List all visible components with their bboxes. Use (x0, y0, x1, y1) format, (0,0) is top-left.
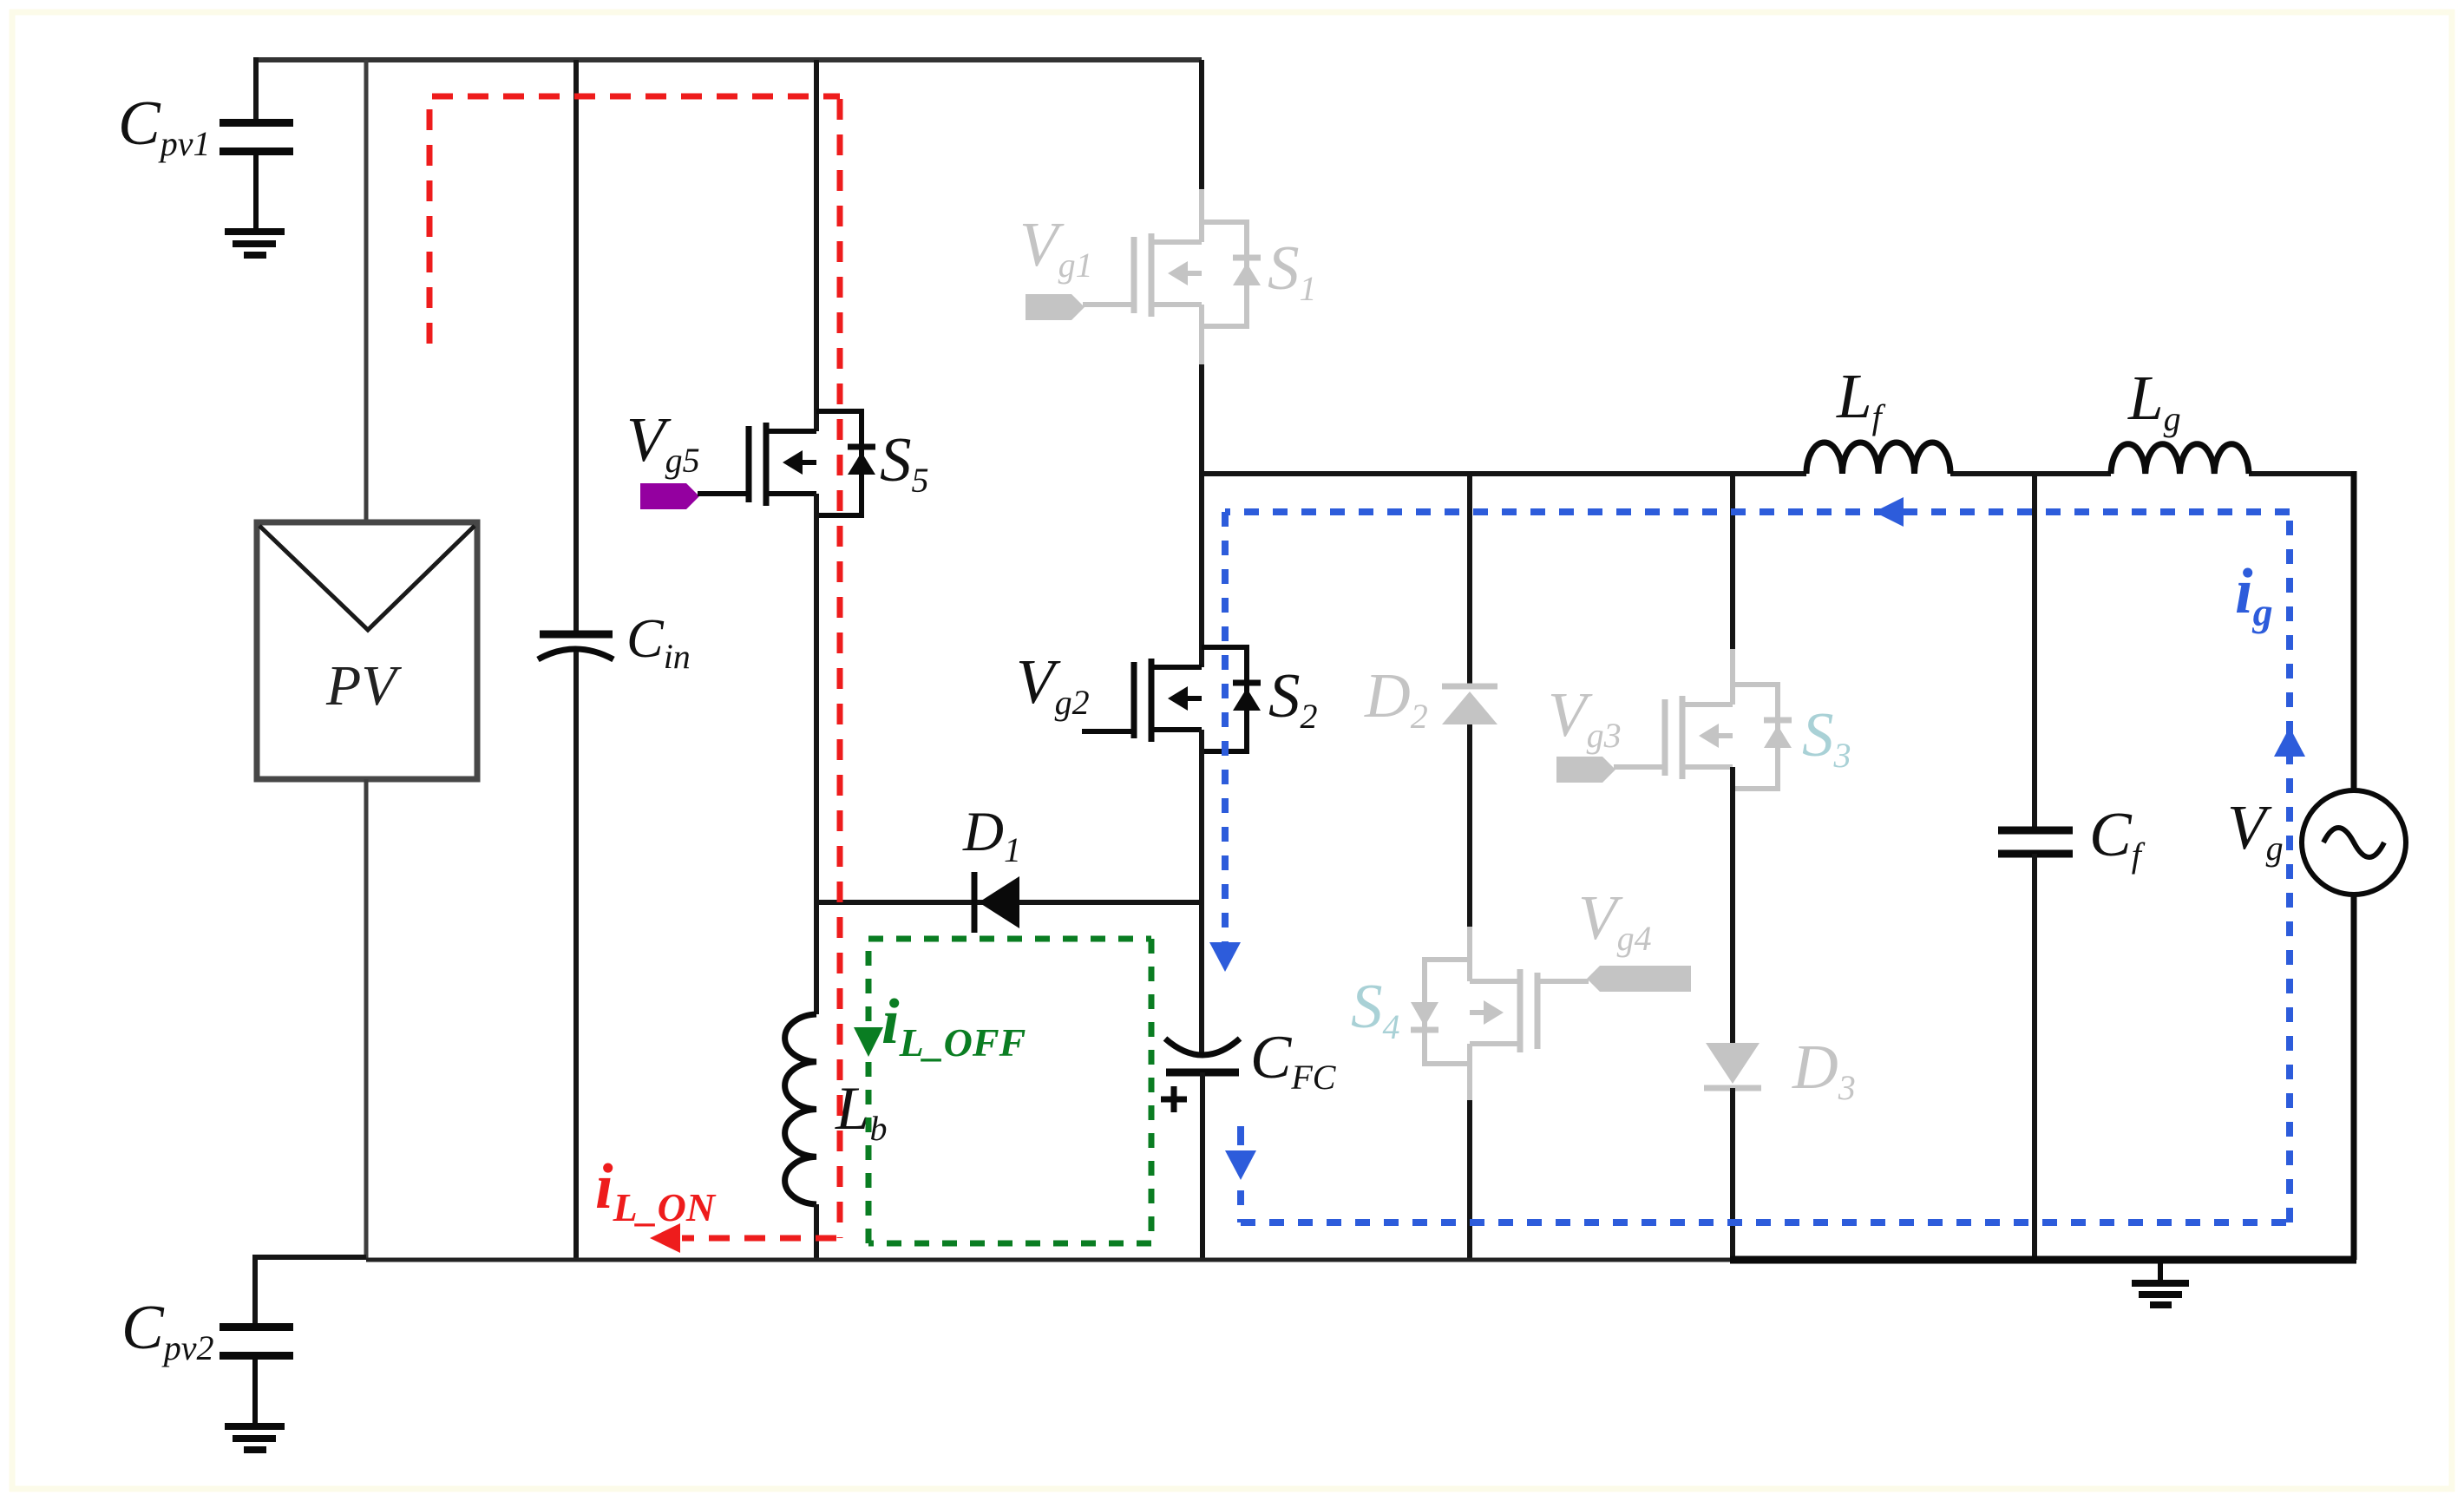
wire V_g2 gate lead (1082, 729, 1134, 734)
transistor S5 (749, 411, 875, 515)
wire right edge lower (2351, 895, 2357, 1260)
inductor L_b (785, 1014, 816, 1204)
wire right edge upper (2351, 471, 2357, 790)
diode D1 (972, 872, 978, 933)
diode D3 (inactive) (1706, 1043, 1760, 1084)
wire S1 drain (top) (1199, 60, 1204, 189)
wire D1 (816, 900, 1203, 905)
gate drive V_g1 arrow (inactive) (1026, 294, 1085, 320)
wire C_pv1 stub (253, 57, 259, 121)
capacitor C_in (538, 634, 613, 659)
capacitor C_FC (1165, 1039, 1240, 1072)
wire D2 branch upper (1467, 474, 1472, 684)
wire S1 source (1199, 305, 1204, 364)
transistor S4 (inactive, mirrored) (1411, 960, 1537, 1064)
gate drive V_g5 arrow (640, 483, 699, 509)
svg-text:PV: PV (325, 654, 402, 718)
transistor S3 (inactive) (1665, 685, 1792, 789)
transistor S2 (1134, 647, 1261, 751)
transistor S1 (inactive) (1134, 222, 1261, 326)
wire C_in branch lower (573, 652, 579, 1260)
capacitor C_pv1 (220, 123, 293, 230)
wire mid rail (1202, 471, 2355, 476)
PV panel (257, 522, 477, 779)
wire S2 source to C_FC (1199, 730, 1204, 1057)
current loop i_L_ON (red dashed) (429, 96, 840, 1238)
diode D2 (inactive) (1442, 684, 1497, 690)
wire S4 lower (1467, 1044, 1472, 1100)
wire bottom rail (255, 1255, 366, 1260)
ground (C_pv2) (225, 1426, 285, 1450)
wire C_in branch upper (573, 60, 579, 634)
wire D2 to S4 (1467, 724, 1472, 927)
current loop i_g (blue dashed) (1225, 512, 2290, 1222)
label + (C_FC polarity) (1161, 1086, 1187, 1112)
wire C_pv2 stub (252, 1255, 258, 1325)
wire top rail (256, 57, 1202, 62)
wire S5 source to D1 node (814, 494, 819, 1014)
wire PV branch upper (364, 60, 369, 522)
capacitor C_pv2 (220, 1327, 293, 1425)
gate drive V_g3 arrow (inactive) (1556, 757, 1615, 783)
source V_g (2302, 790, 2406, 895)
inductor L_g (2111, 444, 2249, 474)
wire S5 drain (814, 60, 819, 431)
wire D3 lower (1730, 1088, 1735, 1260)
wire S3 branch upper (1730, 474, 1735, 649)
wire S3 to D3 (1730, 767, 1735, 1043)
wire C_f branch lower (2032, 854, 2037, 1260)
inductor L_f (1806, 442, 1950, 474)
wire PV branch lower (364, 779, 369, 1260)
current loop i_L_OFF (green dashed) (868, 939, 1151, 1243)
wire L_b lower (814, 1204, 819, 1260)
wire C_f branch upper (2032, 474, 2037, 829)
capacitor C_f (1998, 830, 2073, 854)
wire C_FC lower (1200, 1072, 1205, 1260)
ground (output) (2132, 1260, 2189, 1305)
ground (C_pv1) (225, 232, 285, 255)
gate drive V_g4 arrow (inactive) (1587, 966, 1691, 992)
